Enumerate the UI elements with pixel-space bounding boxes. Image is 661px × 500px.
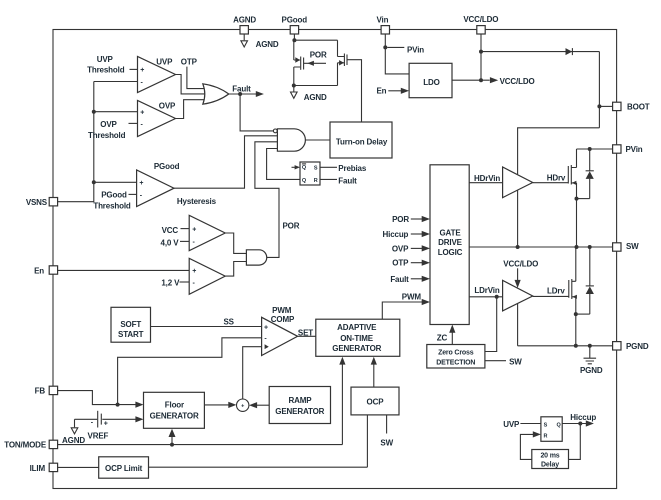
arrowhead on Q1 drain: [295, 57, 300, 62]
wire LDrv gate lead: [533, 295, 569, 297]
arrowhead VCC/LDO output: [490, 77, 498, 83]
wire OVP output to OR: [176, 100, 206, 119]
svg-text:ZC: ZC: [437, 333, 448, 342]
pin TON/MODE (left): [49, 440, 57, 448]
diode D2 body diode high-side: [589, 149, 591, 199]
pin Vin (top): [381, 26, 389, 34]
svg-text:En: En: [376, 87, 386, 96]
node POR switch AGND junction: [292, 84, 296, 88]
svg-text:POR: POR: [310, 50, 327, 59]
svg-text:GENERATOR: GENERATOR: [332, 344, 381, 353]
svg-text:OVP: OVP: [159, 102, 176, 111]
svg-text:Fault: Fault: [390, 275, 409, 284]
svg-text:START: START: [118, 330, 144, 339]
POR discharge switch block: top rail: [294, 39, 338, 41]
svg-text:UVP: UVP: [156, 57, 173, 66]
svg-text:DETECTION: DETECTION: [436, 360, 475, 367]
wire bottom rail: [294, 85, 338, 87]
svg-text:AGND: AGND: [233, 15, 256, 24]
svg-text:PVin: PVin: [626, 145, 643, 154]
svg-text:UVP: UVP: [503, 420, 520, 429]
svg-text:OTP: OTP: [181, 57, 198, 66]
wire Floor GEN output to multiplier: [204, 404, 228, 406]
svg-text:VSNS: VSNS: [26, 198, 48, 207]
node Q4 source-diode junction: [574, 312, 578, 316]
svg-text:Q: Q: [557, 423, 562, 429]
svg-text:OCP Limit: OCP Limit: [105, 464, 143, 473]
svg-text:SET: SET: [298, 328, 313, 337]
svg-text:Fault: Fault: [338, 176, 357, 185]
pin AGND (top): [240, 26, 248, 34]
svg-text:AGND: AGND: [62, 436, 85, 445]
wire VREF to AGND: [74, 419, 76, 427]
wire sense to PGood plus: [94, 181, 137, 183]
wire PVin stub: [387, 46, 404, 48]
svg-text:Threshold: Threshold: [93, 201, 131, 210]
node PVin-diode junction: [588, 147, 592, 151]
wire OCP Limit output: [149, 466, 368, 468]
svg-text:SS: SS: [224, 317, 235, 326]
wire diode to BOOT: [598, 52, 600, 128]
ground AGND symbol (VREF): [71, 428, 78, 434]
node multiplier: [237, 399, 249, 411]
svg-text:OTP: OTP: [392, 259, 409, 268]
svg-text:+: +: [104, 421, 108, 428]
wire BOOT junction to pin: [599, 105, 612, 107]
wire SET output: [298, 335, 316, 337]
node Fault junction: [238, 92, 242, 96]
wire OCP output up into ATG: [373, 364, 375, 387]
ground PGND symbol: [584, 346, 597, 364]
svg-text:Q: Q: [302, 165, 307, 171]
arrowhead En into LDO: [401, 88, 409, 94]
svg-text:Hiccup: Hiccup: [570, 413, 596, 422]
svg-text:Q: Q: [302, 178, 307, 184]
svg-text:SW: SW: [626, 242, 639, 251]
arrowhead FB into Floor GEN: [135, 402, 143, 408]
svg-text:VCC: VCC: [162, 226, 179, 235]
svg-text:OCP: OCP: [367, 397, 385, 406]
arrowhead on Q1 gate: [307, 61, 314, 66]
wire latch S stub Prebias: [320, 166, 337, 168]
node PGood rail junction: [292, 38, 296, 42]
svg-text:R: R: [544, 433, 548, 439]
pin BOOT (right): [613, 102, 621, 110]
wire VCC comp output to POR AND: [225, 233, 246, 253]
svg-text:GATE: GATE: [439, 228, 461, 237]
LDO block: [409, 63, 452, 97]
svg-text:VCC/LDO: VCC/LDO: [500, 77, 535, 86]
svg-text:LDO: LDO: [423, 78, 439, 87]
node Q3 source-diode junction: [575, 197, 579, 201]
wire SW rail: [469, 246, 612, 248]
comparator PGood: [137, 170, 174, 207]
svg-text:DRIVE: DRIVE: [438, 238, 463, 247]
svg-text:Threshold: Threshold: [88, 131, 126, 140]
wire OCP from ILIM line: [366, 415, 368, 467]
node PGND-FET junction: [574, 344, 578, 348]
svg-text:+: +: [192, 268, 196, 275]
wire hiccup down to delay: [569, 424, 581, 460]
transistor Q2 (right POR switch): [338, 40, 345, 85]
svg-text:PWM: PWM: [402, 293, 422, 302]
wire HDrv gate lead: [533, 182, 569, 184]
node BOOT junction: [597, 104, 601, 108]
Zero Cross DETECTION block: [427, 345, 485, 369]
wire TON up into ATG: [341, 364, 343, 445]
svg-text:Threshold: Threshold: [87, 65, 125, 74]
svg-text:POR: POR: [392, 215, 409, 224]
wire OTP to OR: [187, 67, 206, 89]
svg-text:HDrv: HDrv: [547, 173, 566, 182]
wire AGND pin to symbol: [243, 34, 245, 40]
transistor Q4 low-side MOSFET: [568, 280, 570, 298]
svg-text:FB: FB: [35, 387, 46, 396]
svg-text:GENERATOR: GENERATOR: [150, 411, 199, 420]
pin SW (right): [613, 243, 621, 251]
wire POR net to AND input 3: [255, 142, 279, 258]
wire bootstrap diode line: [481, 51, 599, 53]
wire Fault down to AND input 1: [240, 94, 273, 131]
wire UVP output to OR: [176, 75, 205, 94]
pin PVin (right): [613, 145, 621, 153]
svg-text:AGND: AGND: [256, 40, 279, 49]
node SW-FET junction: [575, 245, 579, 249]
wire bootstrap to high driver top: [518, 128, 600, 174]
ADAPTIVE ON-TIME GENERATOR block: [316, 319, 400, 356]
svg-text:ADAPTIVE: ADAPTIVE: [337, 323, 377, 332]
wire HDrVin: [469, 182, 502, 184]
transistor Q3 high-side MOSFET: [567, 166, 569, 184]
wire En to 1,2V comparator: [58, 269, 190, 271]
pin VCC/LDO (top): [477, 26, 485, 34]
or-gate fault OR: [203, 84, 229, 104]
wire arrow up into Floor GEN: [171, 437, 173, 445]
wire Vin down to LDO: [385, 34, 409, 74]
svg-text:SW: SW: [509, 357, 522, 366]
svg-text:Turn-on Delay: Turn-on Delay: [336, 138, 388, 147]
node LDrVin-ZC junction: [495, 295, 499, 299]
svg-text:R: R: [314, 178, 318, 184]
svg-text:PGND: PGND: [626, 342, 649, 351]
svg-text:PWM: PWM: [272, 306, 292, 315]
wire PGood pin down to POR switch rail: [293, 34, 295, 40]
wire HDrv driver bottom to SW: [517, 190, 519, 247]
node SW-driver junction: [516, 245, 520, 249]
wire RAMP GEN output to multiplier: [257, 404, 269, 406]
transistor Q1 (left POR switch): [294, 40, 300, 85]
svg-text:4,0 V: 4,0 V: [161, 238, 180, 247]
svg-text:S: S: [544, 423, 548, 429]
Turn-on Delay block: [330, 122, 392, 158]
svg-text:ILIM: ILIM: [30, 464, 46, 473]
wire to AGND symbol: [293, 86, 295, 92]
svg-text:OVP: OVP: [392, 244, 409, 253]
wire delay to latch R: [520, 434, 533, 459]
SOFT START block: [111, 307, 151, 342]
svg-text:BOOT: BOOT: [627, 102, 650, 111]
wire SW into ZCD: [485, 360, 506, 362]
OCP block: [351, 387, 399, 415]
node SW-diode junction: [588, 245, 592, 249]
svg-text:Hysteresis: Hysteresis: [177, 197, 217, 206]
svg-text:20 ms: 20 ms: [540, 452, 559, 459]
arrowhead VREF into Floor GEN: [135, 416, 143, 422]
diode D1 (bootstrap): [566, 48, 573, 55]
wire Fault output: [229, 93, 257, 95]
svg-text:ON-TIME: ON-TIME: [340, 334, 374, 343]
diode D3 body diode low-side: [589, 247, 591, 314]
wire PVin rail: [577, 148, 613, 150]
wire sense to UVP minus: [94, 81, 138, 83]
svg-text:VCC/LDO: VCC/LDO: [503, 260, 538, 269]
svg-text:En: En: [34, 267, 44, 276]
svg-text:PVin: PVin: [407, 45, 424, 54]
ground AGND symbol (POR switch): [291, 92, 298, 98]
comparator 1,2V: [189, 258, 225, 294]
pin PGood (top): [290, 26, 298, 34]
wire LDrVin: [469, 296, 502, 298]
node TON-floor junction: [170, 443, 174, 447]
driver LDrv buffer: [503, 280, 533, 311]
node sense-PGood junction: [92, 180, 96, 184]
svg-text:COMP: COMP: [271, 315, 295, 324]
svg-text:S: S: [314, 165, 318, 171]
wire Q2 gate to Turn-on Delay: [347, 60, 362, 122]
wire TON/MODE line: [58, 444, 343, 446]
wire multiplier up to PWM comp: [243, 347, 262, 399]
svg-text:VCC/LDO: VCC/LDO: [463, 15, 498, 24]
node VCC/LDO diode junction: [479, 50, 483, 54]
20 ms Delay block: [532, 450, 569, 469]
node PGND-gnd junction: [588, 344, 592, 348]
comparator OVP: [138, 101, 176, 137]
pin PGND (right): [613, 342, 621, 350]
wire FB to Floor GENERATOR: [58, 391, 136, 405]
svg-text:Zero Cross: Zero Cross: [438, 349, 474, 356]
node inverter bubble on AND input 1: [273, 129, 277, 133]
svg-text:PGood: PGood: [101, 191, 127, 200]
svg-text:OVP: OVP: [100, 120, 117, 129]
wire sense to OVP plus: [94, 111, 138, 113]
wire AND output to Turn-on Delay: [305, 139, 330, 141]
node FB junction: [116, 403, 120, 407]
svg-text:PGood: PGood: [154, 162, 180, 171]
svg-text:PGood: PGood: [282, 15, 308, 24]
latch prebias/fault: [300, 162, 320, 185]
svg-text:+: +: [139, 180, 143, 187]
wire LDO output: [452, 79, 490, 81]
wire VCC/LDO vertical: [480, 34, 482, 80]
svg-text:UVP: UVP: [97, 55, 114, 64]
svg-text:Hiccup: Hiccup: [383, 230, 409, 239]
svg-text:Delay: Delay: [541, 462, 559, 469]
node sense-OVP junction: [92, 110, 96, 114]
Floor GENERATOR block: [144, 392, 205, 428]
svg-text:SW: SW: [380, 438, 393, 447]
svg-text:AGND: AGND: [304, 93, 327, 102]
svg-text:Prebias: Prebias: [338, 164, 367, 173]
svg-text:1,2 V: 1,2 V: [161, 279, 180, 288]
svg-text:+: +: [140, 110, 144, 117]
svg-text:LDrv: LDrv: [547, 287, 565, 296]
pin En (left): [49, 266, 57, 274]
svg-text:+: +: [140, 67, 144, 74]
svg-text:Floor: Floor: [165, 401, 184, 410]
wire latch Qbar stub: [292, 166, 295, 168]
node VCC/LDO output junction: [479, 78, 483, 82]
arrowhead Fault: [256, 91, 264, 97]
wire latch Q to AND input 4: [267, 149, 300, 180]
svg-text:HDrVin: HDrVin: [474, 174, 500, 183]
svg-text:PGND: PGND: [580, 366, 603, 375]
svg-text:Fault: Fault: [232, 85, 251, 94]
GATE DRIVE LOGIC block U2: [430, 165, 469, 325]
wire ILIM to OCP Limit: [58, 466, 99, 468]
IC boundary border: [53, 30, 617, 489]
driver HDrv buffer: [503, 167, 533, 198]
pin VSNS (left): [49, 198, 57, 206]
wire PGood output to AND input 2: [174, 136, 277, 188]
svg-text:VREF: VREF: [88, 431, 109, 440]
wire latch R stub Fault: [320, 178, 337, 180]
svg-text:LOGIC: LOGIC: [438, 248, 463, 257]
RAMP GENERATOR block: [269, 387, 330, 424]
svg-text:SOFT: SOFT: [120, 320, 141, 329]
svg-text:+: +: [264, 324, 268, 331]
node Vin junction: [383, 45, 387, 49]
pin FB (left): [49, 386, 57, 394]
svg-text:POR: POR: [283, 222, 300, 231]
wire FB up to PWM comp minus: [118, 338, 262, 405]
wire ZCD output up to LDrVin: [485, 297, 497, 352]
svg-text:RAMP: RAMP: [289, 396, 313, 405]
and-gate turn-on (4 input): [277, 129, 305, 151]
wire UVP into hiccup latch: [520, 423, 541, 425]
ground AGND symbol (top): [241, 41, 248, 47]
wire LDrv driver bottom to PGND: [517, 304, 519, 346]
wire VSNS sense rail: [58, 82, 94, 202]
OCP Limit block: [99, 457, 149, 478]
svg-text:-: -: [91, 420, 94, 427]
svg-text:LDrVin: LDrVin: [474, 286, 499, 295]
svg-text:Vin: Vin: [376, 15, 388, 24]
arrowhead into latch Qbar: [295, 165, 300, 169]
svg-text:+: +: [192, 226, 196, 233]
wire SS to PWM comp: [151, 326, 262, 328]
battery VREF: [75, 418, 98, 420]
node hiccup junction: [578, 422, 582, 426]
wire 1,2V comp output to POR AND: [225, 262, 246, 277]
svg-text:TON/MODE: TON/MODE: [4, 441, 47, 450]
wire hiccup latch Q output: [562, 423, 587, 425]
svg-text:GENERATOR: GENERATOR: [275, 407, 324, 416]
arrowhead on Q2 source: [339, 60, 344, 65]
and-gate POR: [246, 250, 266, 265]
wire PGND rail: [518, 345, 613, 347]
pin ILIM (left): [49, 463, 57, 471]
wire OCP SW stub: [386, 415, 388, 434]
svg-text:+: +: [241, 404, 244, 410]
wire gate lead POR label: [304, 62, 326, 64]
